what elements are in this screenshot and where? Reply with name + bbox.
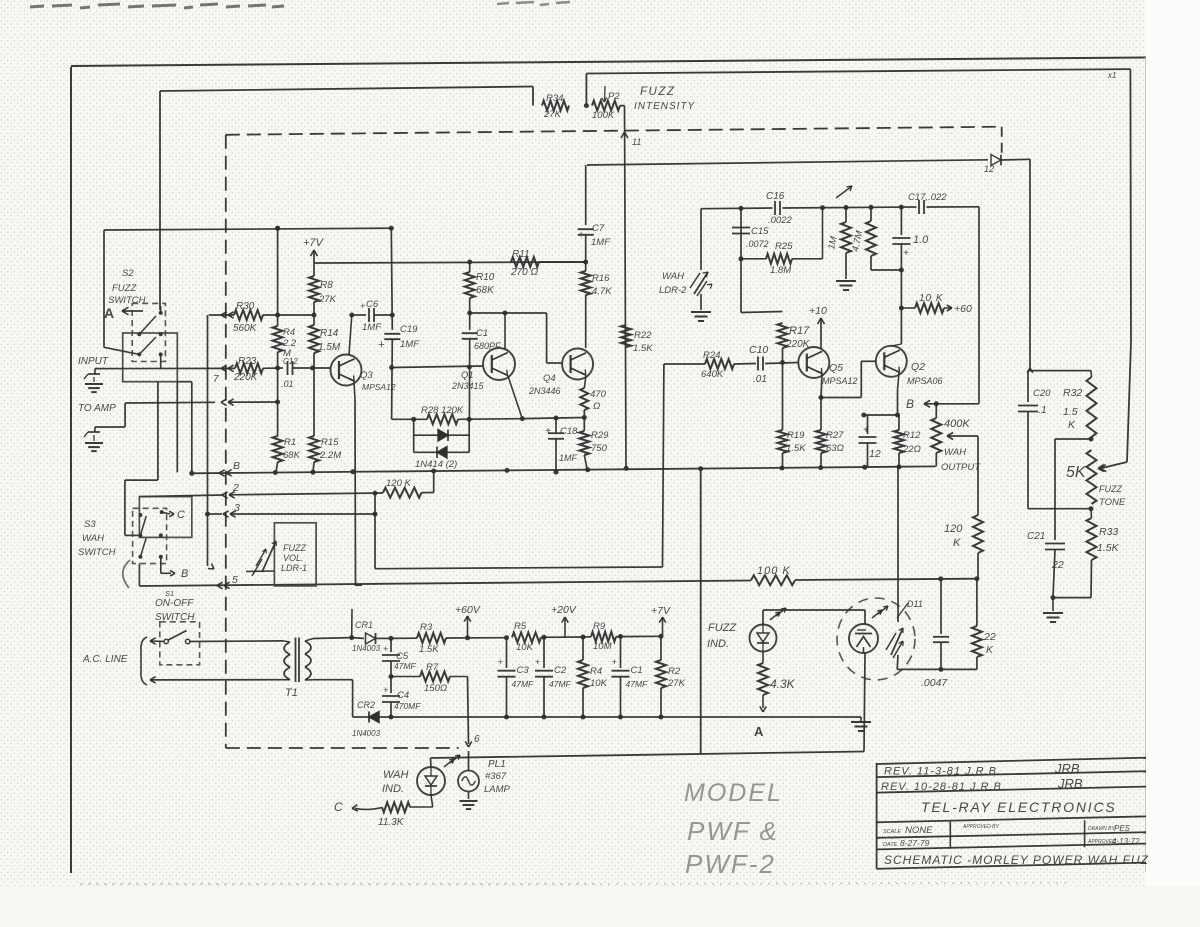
svg-text:R15: R15 — [321, 437, 339, 448]
svg-text:+7V: +7V — [303, 237, 325, 249]
svg-text:68K: 68K — [476, 285, 495, 296]
svg-text:FUZZ: FUZZ — [640, 86, 675, 98]
svg-text:1N4003: 1N4003 — [352, 729, 381, 738]
svg-text:8-27-79: 8-27-79 — [900, 838, 930, 848]
svg-text:.01: .01 — [281, 379, 294, 389]
svg-text:SCHEMATIC -MORLEY POWER WAH FU: SCHEMATIC -MORLEY POWER WAH FUZ — [884, 853, 1149, 867]
svg-text:C3: C3 — [517, 665, 530, 676]
svg-text:1N414 (2): 1N414 (2) — [415, 459, 457, 470]
svg-text:11.3K: 11.3K — [378, 817, 405, 828]
svg-text:+20V: +20V — [551, 604, 577, 616]
svg-text:3: 3 — [234, 502, 240, 514]
svg-text:+: + — [863, 425, 869, 436]
svg-text:27K: 27K — [667, 678, 686, 689]
svg-text:.01: .01 — [753, 374, 767, 385]
svg-text:R28 120K: R28 120K — [421, 405, 464, 416]
svg-text:100K: 100K — [592, 110, 615, 121]
svg-text:5K: 5K — [1066, 464, 1087, 481]
svg-text:6: 6 — [474, 734, 480, 745]
svg-text:REV. 10-28-81 J.R.B.: REV. 10-28-81 J.R.B. — [881, 781, 1006, 793]
svg-text:D11: D11 — [907, 599, 923, 609]
svg-text:C18: C18 — [560, 426, 578, 437]
svg-text:100 K: 100 K — [757, 565, 791, 577]
svg-text:PL1: PL1 — [488, 759, 506, 770]
svg-text:4.3K: 4.3K — [770, 677, 796, 691]
svg-text:+: + — [578, 230, 584, 241]
svg-text:1.5K: 1.5K — [633, 343, 653, 354]
svg-text:B: B — [181, 568, 188, 580]
svg-text:MPSA06: MPSA06 — [907, 376, 943, 386]
svg-text:K: K — [986, 644, 994, 656]
svg-text:4.7K: 4.7K — [592, 286, 612, 297]
svg-text:K: K — [953, 537, 961, 549]
svg-text:7: 7 — [213, 374, 219, 385]
svg-text:5: 5 — [232, 574, 238, 586]
svg-text:Q3: Q3 — [360, 370, 373, 381]
svg-text:NONE: NONE — [905, 825, 933, 836]
svg-text:C20: C20 — [1033, 388, 1051, 399]
svg-text:1.5: 1.5 — [1063, 406, 1078, 418]
svg-text:+7V: +7V — [651, 605, 671, 617]
svg-text:PES: PES — [1114, 824, 1131, 833]
svg-text:R3: R3 — [420, 622, 433, 633]
svg-text:12: 12 — [984, 164, 994, 174]
svg-text:1.5K: 1.5K — [419, 644, 439, 655]
svg-text:T1: T1 — [285, 687, 298, 699]
svg-text:400K: 400K — [944, 418, 970, 430]
svg-text:+: + — [545, 426, 551, 437]
svg-text:680PF: 680PF — [474, 341, 501, 351]
svg-text:R14: R14 — [320, 328, 339, 339]
svg-text:1MF: 1MF — [591, 237, 611, 248]
svg-text:R4: R4 — [590, 666, 602, 677]
svg-text:CR2: CR2 — [357, 700, 375, 710]
svg-text:560K: 560K — [233, 323, 258, 334]
svg-text:C: C — [177, 509, 185, 521]
svg-text:B: B — [233, 460, 240, 472]
svg-text:C4: C4 — [397, 690, 409, 701]
svg-text:22: 22 — [983, 631, 996, 643]
svg-text:470: 470 — [590, 389, 607, 400]
svg-text:63Ω: 63Ω — [826, 443, 844, 454]
svg-text:S2: S2 — [122, 268, 134, 279]
svg-text:A.C. LINE: A.C. LINE — [82, 654, 128, 665]
svg-text:Q5: Q5 — [829, 362, 843, 374]
svg-text:+: + — [360, 301, 365, 311]
svg-text:MPSA12: MPSA12 — [362, 382, 396, 392]
svg-text:S3: S3 — [84, 519, 96, 530]
svg-text:R24: R24 — [703, 350, 720, 361]
svg-text:R16: R16 — [592, 273, 610, 284]
svg-text:R10: R10 — [476, 272, 495, 283]
svg-text:C12: C12 — [283, 357, 298, 366]
svg-text:R12: R12 — [903, 430, 921, 441]
svg-text:C1: C1 — [631, 665, 643, 676]
svg-text:12: 12 — [869, 448, 881, 460]
svg-text:27K: 27K — [318, 294, 337, 305]
svg-text:1MF: 1MF — [362, 322, 382, 333]
svg-text:JRB: JRB — [1057, 776, 1083, 791]
svg-text:1.0: 1.0 — [913, 234, 929, 246]
svg-text:B: B — [906, 397, 914, 411]
svg-text:640K: 640K — [701, 369, 724, 380]
svg-text:C19: C19 — [400, 324, 418, 335]
svg-text:+: + — [903, 248, 909, 259]
svg-text:C16: C16 — [766, 191, 785, 202]
svg-text:OUTPUT: OUTPUT — [941, 462, 981, 473]
svg-text:27K: 27K — [543, 109, 562, 120]
svg-text:C6: C6 — [366, 299, 379, 310]
svg-text:+: + — [535, 657, 540, 667]
svg-text:TO AMP: TO AMP — [78, 403, 116, 414]
svg-text:270 Ω: 270 Ω — [510, 267, 538, 278]
svg-text:CR1: CR1 — [355, 620, 373, 630]
svg-text:2N3415: 2N3415 — [451, 381, 485, 391]
svg-text:#367: #367 — [485, 771, 507, 782]
svg-text:R19: R19 — [787, 430, 805, 441]
svg-text:Q1: Q1 — [461, 370, 474, 381]
svg-text:Ω: Ω — [593, 401, 600, 412]
svg-text:68K: 68K — [283, 450, 301, 461]
svg-text:2N3446: 2N3446 — [528, 386, 561, 396]
svg-text:+: + — [378, 339, 385, 351]
svg-text:R8: R8 — [320, 280, 333, 291]
svg-text:+: + — [383, 644, 388, 654]
svg-text:R30: R30 — [236, 301, 255, 312]
svg-text:WAH: WAH — [944, 447, 966, 458]
svg-text:11: 11 — [632, 137, 641, 147]
svg-text:DRAWN BY: DRAWN BY — [1088, 826, 1116, 832]
svg-text:C1: C1 — [476, 328, 488, 339]
svg-text:R1: R1 — [284, 437, 296, 448]
svg-text:10M: 10M — [593, 641, 612, 652]
svg-text:C7: C7 — [592, 223, 605, 234]
svg-text:+: + — [612, 657, 617, 667]
svg-text:REV. 11-3-81 J.R.B.: REV. 11-3-81 J.R.B. — [884, 766, 1001, 778]
svg-text:470MF: 470MF — [394, 701, 421, 711]
svg-text:150Ω: 150Ω — [424, 683, 447, 694]
svg-text:+60V: +60V — [455, 604, 481, 616]
svg-text:R2: R2 — [668, 666, 681, 677]
svg-text:750: 750 — [591, 443, 608, 454]
svg-text:R4: R4 — [283, 327, 295, 338]
svg-text:C: C — [334, 800, 343, 814]
svg-text:K: K — [1068, 419, 1076, 431]
svg-text:R7: R7 — [426, 662, 439, 673]
svg-text:INTENSITY: INTENSITY — [634, 101, 696, 112]
svg-text:47MF: 47MF — [512, 679, 535, 689]
svg-text:LDR-1: LDR-1 — [281, 563, 307, 573]
svg-text:Q4: Q4 — [543, 373, 556, 384]
svg-text:22: 22 — [1051, 559, 1064, 571]
svg-text:MPSA12: MPSA12 — [822, 376, 858, 386]
svg-text:LDR-2: LDR-2 — [659, 285, 687, 296]
svg-text:1N4003: 1N4003 — [352, 644, 381, 653]
svg-text:R17: R17 — [789, 325, 810, 337]
svg-text:R22: R22 — [634, 330, 652, 341]
svg-text:47MF: 47MF — [394, 661, 417, 671]
svg-text:C2: C2 — [554, 665, 567, 676]
svg-text:47MF: 47MF — [626, 679, 649, 689]
svg-text:10K: 10K — [590, 678, 608, 689]
svg-text:JRB: JRB — [1054, 761, 1080, 776]
svg-text:IND.: IND. — [707, 638, 729, 650]
svg-text:SCALE: SCALE — [883, 829, 901, 835]
svg-text:PWF &: PWF & — [687, 816, 779, 846]
svg-text:APPROVED BY: APPROVED BY — [962, 824, 1000, 830]
svg-text:+: + — [498, 657, 503, 667]
svg-text:+10: +10 — [809, 305, 827, 317]
svg-text:2.2M: 2.2M — [319, 450, 341, 461]
svg-text:.0047: .0047 — [921, 677, 948, 689]
svg-text:Q2: Q2 — [911, 361, 925, 373]
svg-text:10 K: 10 K — [919, 293, 944, 304]
svg-text:R27: R27 — [826, 430, 844, 441]
svg-text:10K: 10K — [516, 642, 534, 653]
svg-text:220K: 220K — [233, 372, 259, 383]
svg-text:ON-OFF: ON-OFF — [155, 598, 194, 609]
svg-text:PWF-2: PWF-2 — [685, 849, 776, 879]
svg-text:1.5M: 1.5M — [318, 342, 341, 353]
svg-text:LAMP: LAMP — [484, 784, 511, 795]
svg-text:1MF: 1MF — [400, 339, 420, 350]
svg-text:1.5K: 1.5K — [786, 443, 806, 454]
svg-text:DATE: DATE — [883, 842, 898, 848]
svg-text:.0072: .0072 — [746, 239, 769, 249]
svg-text:120 K: 120 K — [386, 478, 411, 489]
svg-text:WAH: WAH — [82, 533, 104, 544]
svg-text:A: A — [104, 305, 114, 321]
svg-text:R25: R25 — [775, 241, 793, 252]
svg-text:R32: R32 — [1063, 387, 1082, 399]
svg-text:R33: R33 — [1099, 526, 1118, 538]
svg-text:FUZZ: FUZZ — [708, 622, 737, 634]
svg-text:R5: R5 — [514, 621, 527, 632]
svg-text:1.8M: 1.8M — [770, 265, 791, 276]
svg-text:A: A — [754, 724, 764, 739]
svg-text:P2: P2 — [608, 91, 620, 102]
svg-text:22Ω: 22Ω — [902, 444, 921, 455]
svg-text:IND.: IND. — [382, 783, 404, 795]
svg-text:VOL.: VOL. — [283, 553, 304, 563]
svg-text:WAH: WAH — [662, 271, 684, 282]
svg-text:S1: S1 — [165, 589, 174, 598]
svg-text:R9: R9 — [593, 621, 606, 632]
svg-text:WAH: WAH — [383, 769, 409, 781]
svg-text:1MF: 1MF — [559, 453, 578, 463]
svg-text:MODEL: MODEL — [684, 779, 783, 807]
svg-text:C21: C21 — [1027, 531, 1045, 542]
svg-text:1.5K: 1.5K — [1097, 542, 1120, 554]
svg-text:+: + — [383, 685, 388, 695]
svg-text:FUZZ: FUZZ — [112, 283, 137, 294]
svg-text:4-13-72: 4-13-72 — [1112, 837, 1140, 846]
svg-text:2: 2 — [232, 482, 239, 494]
svg-text:FUZZ: FUZZ — [283, 543, 306, 553]
svg-text:SWITCH: SWITCH — [78, 547, 116, 558]
svg-text:.0022: .0022 — [768, 215, 792, 226]
svg-text:.1: .1 — [1038, 404, 1047, 416]
svg-text:x1: x1 — [1107, 71, 1116, 80]
svg-text:R11: R11 — [512, 249, 530, 260]
svg-text:INPUT: INPUT — [78, 356, 109, 367]
svg-text:R29: R29 — [591, 430, 609, 441]
svg-text:+60: +60 — [954, 303, 972, 315]
svg-text:C15: C15 — [751, 226, 769, 237]
svg-text:TEL-RAY ELECTRONICS: TEL-RAY ELECTRONICS — [921, 799, 1117, 815]
svg-text:R34: R34 — [546, 93, 563, 104]
svg-text:TONE: TONE — [1099, 497, 1126, 508]
svg-text:R23: R23 — [238, 356, 257, 367]
svg-text:C10: C10 — [749, 344, 768, 356]
svg-text:120: 120 — [944, 523, 963, 535]
svg-text:C17,.022: C17,.022 — [908, 192, 947, 203]
svg-text:47MF: 47MF — [549, 679, 572, 689]
svg-text:FUZZ: FUZZ — [1099, 484, 1122, 494]
